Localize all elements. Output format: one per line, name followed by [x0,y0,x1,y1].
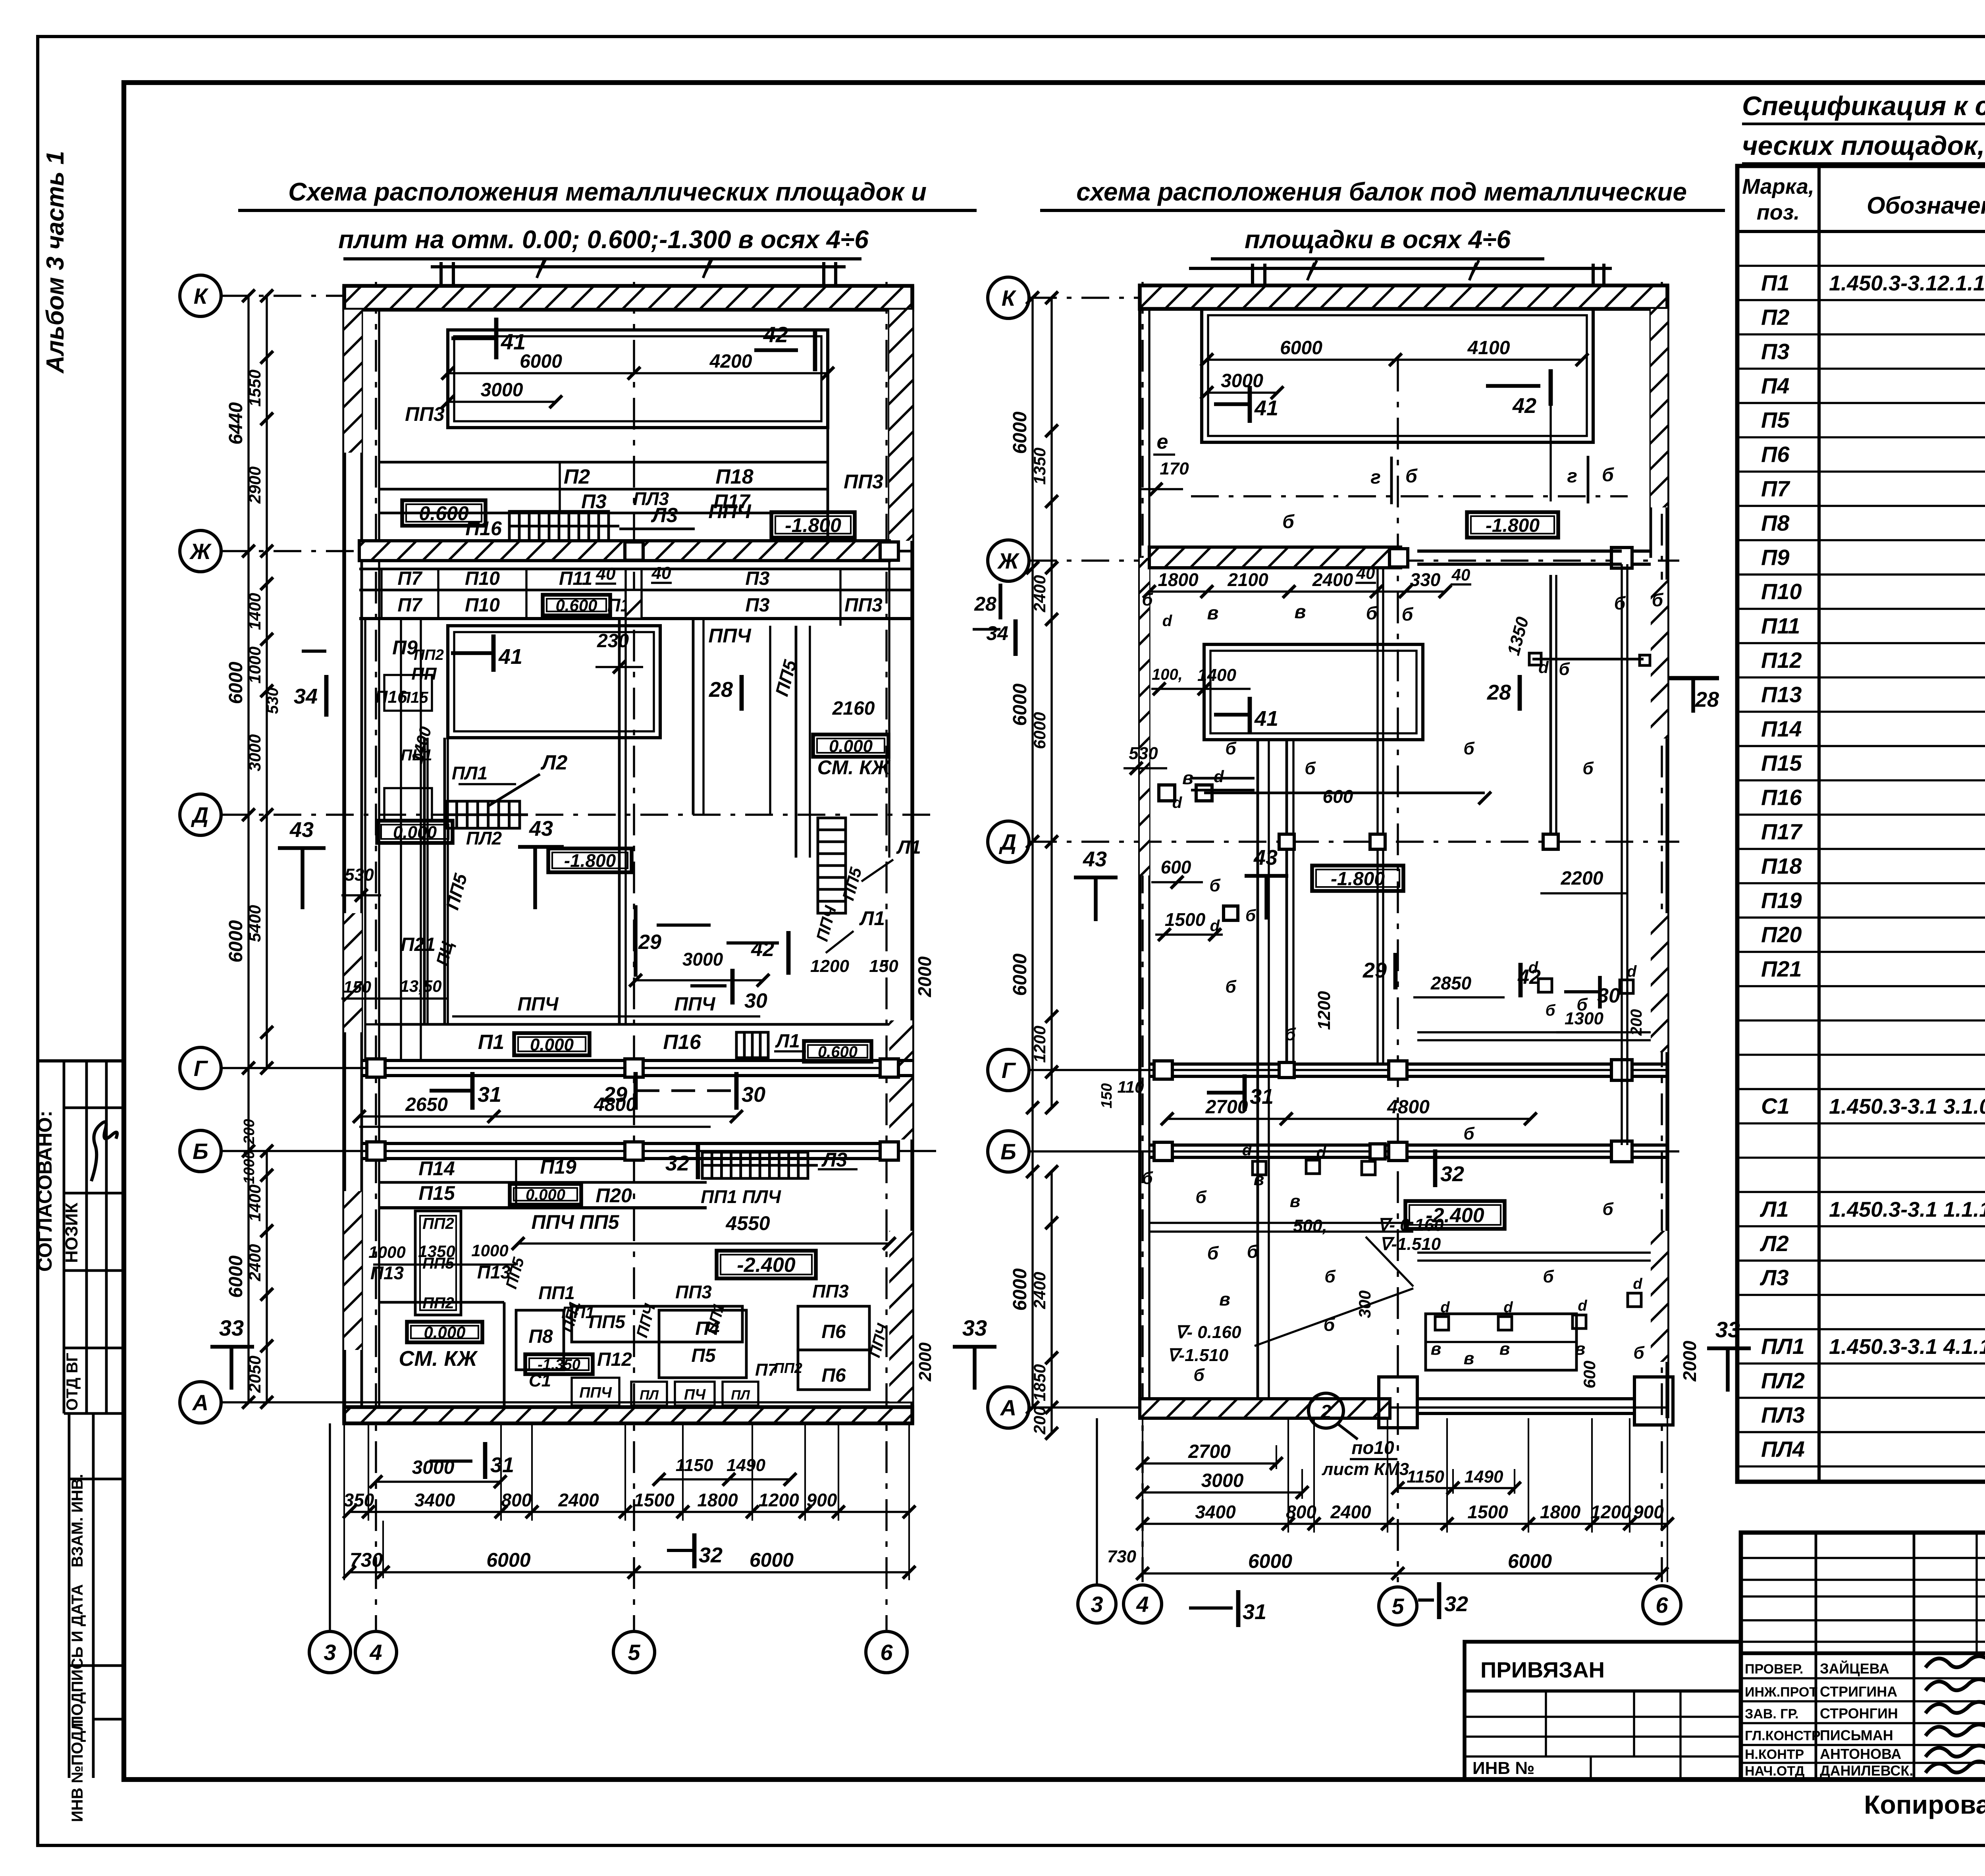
svg-text:3000: 3000 [1201,1470,1244,1491]
svg-text:2400: 2400 [1030,1272,1049,1309]
vertical stairs column right side [769,626,771,815]
svg-text:2000: 2000 [914,956,935,997]
svg-text:d: d [1578,1298,1587,1314]
small rects left plan mid-left column [384,675,432,711]
svg-text:П20: П20 [595,1184,632,1207]
axis Г line [221,1067,912,1069]
svg-text:б: б [1543,1267,1554,1286]
svg-text:П6: П6 [821,1321,846,1342]
svg-text:-2.400: -2.400 [1426,1204,1484,1227]
axis 3 line right [1096,1418,1098,1584]
svg-text:110: 110 [1118,1078,1144,1096]
inner verticals right plan [1285,740,1288,1064]
svg-text:42: 42 [763,322,788,347]
svg-text:б: б [1366,603,1378,623]
svg-text:СОГЛАСОВАНО:: СОГЛАСОВАНО: [34,1111,56,1272]
svg-text:б: б [1652,590,1664,610]
svg-text:40: 40 [651,563,671,583]
lower sidebar boxes [68,1413,71,1778]
svg-text:б: б [1225,977,1237,997]
svg-text:ППЧ: ППЧ [674,994,715,1015]
svg-text:1490: 1490 [727,1456,765,1475]
section flag 41 top [451,336,496,340]
svg-text:ПЛ2: ПЛ2 [1761,1368,1805,1393]
svg-text:б: б [1142,590,1153,609]
svg-text:П13: П13 [370,1263,404,1283]
svg-text:170: 170 [1160,459,1189,478]
svg-text:40: 40 [596,564,616,584]
svg-text:Л1: Л1 [1760,1196,1789,1221]
svg-text:300: 300 [1355,1290,1374,1318]
long horizontals left plan mid [452,1015,760,1017]
axis К line right [1029,297,1667,299]
axis К line [221,295,912,297]
svg-text:d: d [1316,1144,1327,1161]
svg-text:4100: 4100 [1467,337,1510,359]
svg-text:2100: 2100 [1227,569,1268,590]
svg-text:d: d [1214,767,1224,786]
svg-text:2: 2 [1320,1402,1332,1423]
svg-text:d: d [1210,917,1220,935]
svg-text:43: 43 [1083,847,1107,871]
axis circle Ж [180,530,221,572]
title block [1741,1533,1985,1780]
tall column room right [795,626,798,858]
svg-text:1000: 1000 [471,1241,508,1260]
svg-text:ПЛ3: ПЛ3 [1761,1402,1805,1427]
svg-text:1200: 1200 [1590,1502,1631,1522]
svg-text:1.450.3-3.1 1.1.1.0,0: 1.450.3-3.1 1.1.1.0,0 [1829,1197,1985,1221]
svg-text:П8: П8 [528,1326,553,1347]
svg-text:0.600: 0.600 [419,502,468,524]
rows П7 П10 П11 [359,568,912,571]
svg-text:32: 32 [699,1543,723,1567]
svg-text:ПЛ4: ПЛ4 [1761,1436,1805,1461]
svg-text:43: 43 [529,817,553,841]
svg-text:1490: 1490 [1465,1467,1503,1487]
41 flag right plan top [1214,402,1250,406]
svg-text:П5: П5 [691,1345,716,1366]
svg-text:в: в [1254,1170,1264,1189]
svg-text:2400: 2400 [1330,1502,1371,1522]
svg-text:d: d [1440,1299,1450,1316]
axis circle Г [180,1047,221,1089]
svg-text:б: б [1324,1267,1336,1286]
svg-text:ПЧ: ПЧ [684,1386,706,1403]
dim 6000/4200 top [448,372,828,374]
svg-text:∇- 0.160: ∇- 0.160 [1175,1323,1241,1342]
svg-text:150: 150 [869,956,898,976]
svg-text:2400: 2400 [245,1244,264,1281]
svg-text:К: К [1002,285,1017,310]
svg-text:1800: 1800 [1158,569,1199,590]
svg-text:230: 230 [597,630,629,652]
svg-text:30: 30 [742,1083,765,1107]
svg-text:Л3: Л3 [821,1149,847,1171]
svg-text:150: 150 [1098,1083,1115,1108]
svg-text:в: в [1464,1349,1474,1368]
svg-text:С1: С1 [529,1371,551,1390]
axis Г line right [1029,1069,1667,1071]
svg-text:1200: 1200 [1314,991,1334,1030]
svg-text:1850: 1850 [1030,1364,1049,1401]
axis circle 6 [866,1631,907,1673]
svg-text:800: 800 [501,1490,532,1510]
axis circle 3 [309,1631,351,1673]
svg-text:d: d [1633,1276,1642,1292]
svg-text:Копировал: Коршунова: Копировал: Коршунова [1864,1790,1985,1819]
svg-text:2400: 2400 [558,1490,599,1510]
dim 6000 4100 right top [1207,359,1582,361]
svg-text:6000: 6000 [1508,1550,1552,1572]
СМ.КЖ room [379,1301,504,1304]
axis 4 line right [1141,282,1143,1582]
svg-text:П18: П18 [1761,853,1802,878]
32 flag bottom right plan [1418,1598,1434,1602]
svg-text:Л1: Л1 [775,1031,800,1052]
29 flag [634,905,638,977]
svg-text:ПОДПИСЬ И ДАТА: ПОДПИСЬ И ДАТА [69,1584,86,1727]
svg-text:СТРОНГИН: СТРОНГИН [1820,1705,1898,1722]
svg-text:б: б [1463,739,1475,758]
Б beam right [1149,1143,1667,1147]
svg-text:900: 900 [807,1490,837,1510]
d square row below Б [1253,1161,1266,1175]
svg-text:ППЧ: ППЧ [708,625,752,647]
privyazan table [1465,1642,1741,1780]
svg-text:150: 150 [343,978,371,996]
bottom wall А (hatched) [344,1407,912,1423]
svg-text:СМ. КЖ: СМ. КЖ [399,1347,478,1371]
axis 5 line [633,282,635,1630]
svg-text:в: в [1575,1339,1586,1359]
svg-text:32: 32 [1444,1592,1468,1616]
svg-text:ческих площадок, балок, лестни: ческих площадок, балок, лестниц [1742,131,1985,161]
axis Д line right [1029,841,1679,843]
28 flag right plan [1518,675,1522,711]
section flag 42 top [754,348,798,352]
svg-text:б: б [1225,739,1237,758]
svg-text:2400: 2400 [1312,569,1353,590]
svg-text:d: d [1162,612,1173,630]
svg-text:ПП3: ПП3 [405,403,445,425]
extension lines below right plan [1287,1418,1289,1533]
svg-text:б: б [1195,1188,1207,1207]
svg-text:б: б [1245,906,1256,925]
svg-text:0.000: 0.000 [530,1035,574,1055]
А wall right plan (hatched) [1140,1399,1390,1418]
svg-text:П15: П15 [399,689,428,706]
axis А line [221,1401,912,1403]
svg-text:в: в [1207,603,1219,624]
svg-text:Л1: Л1 [859,907,885,929]
svg-text:4: 4 [1136,1592,1149,1617]
svg-text:40: 40 [1451,565,1470,584]
Б beam [362,1142,889,1145]
svg-text:П2: П2 [1761,305,1789,330]
svg-text:в: в [1290,1192,1301,1211]
42 flag right plan top [1486,384,1540,388]
svg-text:3400: 3400 [414,1490,455,1510]
svg-text:2900: 2900 [245,467,264,504]
section flags 31 29 30 below Г [430,1089,472,1093]
svg-text:НАЧ.ОТД: НАЧ.ОТД [1745,1764,1804,1779]
31 flag bottom right plan [1189,1606,1233,1610]
svg-text:900: 900 [1633,1502,1664,1522]
svg-text:5: 5 [628,1640,640,1665]
svg-text:41: 41 [1254,396,1278,420]
axis circle 5 right [1379,1587,1417,1625]
svg-text:6000: 6000 [520,351,562,372]
svg-text:б: б [1285,1025,1296,1044]
svg-text:28: 28 [1695,688,1719,711]
svg-text:П7: П7 [397,595,423,616]
axis Б line right [1029,1150,1679,1152]
svg-text:1000: 1000 [368,1243,405,1261]
svg-text:100,: 100, [1152,666,1183,683]
axis circle 5 [613,1631,655,1673]
svg-text:530: 530 [1129,744,1158,763]
svg-text:б: б [1193,1365,1205,1385]
svg-text:6000: 6000 [1010,1268,1031,1311]
svg-text:Обозначение: Обозначение [1867,192,1985,219]
-1.350 box [525,1354,593,1374]
svg-text:П10: П10 [465,595,500,616]
dim row 1800 2100 2400 330 [1149,590,1445,592]
28 section flag [740,675,744,711]
svg-text:1400: 1400 [245,593,264,630]
svg-text:1400: 1400 [245,1184,264,1221]
signature squiggle [91,1122,117,1181]
svg-text:3400: 3400 [1195,1502,1236,1522]
svg-text:40: 40 [1356,564,1375,582]
svg-text:ППЧ ПП5: ППЧ ПП5 [532,1211,620,1233]
svg-text:П19: П19 [1761,888,1802,913]
axis circle 6 right [1643,1586,1681,1624]
32 flag right [1433,1149,1438,1187]
svg-text:Альбом 3 часть 1: Альбом 3 часть 1 [42,151,69,374]
svg-text:6000: 6000 [225,1255,247,1298]
svg-text:П1: П1 [1761,270,1789,295]
svg-text:33: 33 [962,1315,987,1340]
svg-text:∇-1.510: ∇-1.510 [1380,1234,1441,1254]
svg-text:0.000: 0.000 [393,823,437,842]
svg-text:6000: 6000 [1280,337,1322,359]
svg-text:Л2: Л2 [540,751,568,774]
svg-text:1150: 1150 [1407,1467,1444,1487]
svg-text:Л1: Л1 [896,837,921,858]
axis circle К [180,275,221,316]
left wall right plan [1138,285,1141,1418]
axis circle 3 right [1078,1585,1116,1623]
svg-text:в: в [1499,1339,1510,1359]
axis 5 line right [1397,360,1399,1582]
svg-text:1200: 1200 [1030,1026,1049,1062]
svg-text:ЗАЙЦЕВА: ЗАЙЦЕВА [1820,1660,1889,1677]
svg-text:2000: 2000 [1679,1340,1700,1382]
svg-text:3: 3 [1091,1592,1103,1617]
svg-text:6000: 6000 [1010,953,1031,996]
left dim chains [247,296,249,1402]
svg-text:АНТОНОВА: АНТОНОВА [1820,1746,1901,1762]
svg-text:32: 32 [1440,1162,1464,1186]
svg-text:П8: П8 [1761,510,1790,535]
svg-text:330: 330 [1410,569,1441,590]
svg-text:П17: П17 [1761,819,1803,844]
svg-text:б: б [1582,759,1594,778]
svg-text:0.000: 0.000 [526,1186,565,1203]
svg-text:1400: 1400 [1197,665,1236,685]
svg-text:31: 31 [490,1453,514,1477]
Ж band right (hatch + beam) [1149,547,1401,568]
svg-text:б: б [1142,1168,1153,1188]
svg-text:Г: Г [1002,1058,1016,1083]
inner verticals left plan [423,738,426,1024]
svg-text:41: 41 [501,329,526,354]
axis А line right [1029,1406,1667,1408]
svg-text:1350: 1350 [418,1242,455,1261]
svg-text:730: 730 [1107,1547,1137,1566]
svg-text:6000: 6000 [1010,411,1031,454]
svg-text:в: в [1219,1289,1230,1309]
svg-text:б: б [1247,1241,1259,1262]
axis circle А right [988,1387,1029,1428]
upper platform opening [448,330,828,428]
svg-text:3000: 3000 [245,734,264,771]
svg-text:1350: 1350 [1030,447,1049,484]
svg-text:6000: 6000 [1248,1550,1292,1572]
svg-text:28: 28 [709,678,733,702]
svg-text:2650: 2650 [405,1094,448,1115]
svg-text:-2.400: -2.400 [737,1254,796,1277]
svg-text:2050: 2050 [245,1355,264,1393]
svg-text:2850: 2850 [1430,973,1472,993]
svg-text:530: 530 [345,865,374,885]
svg-text:Д: Д [999,829,1016,854]
41 flag rect2 [1214,713,1250,717]
svg-text:Схема расположения металлическ: Схема расположения металлических площадо… [288,177,927,206]
svg-text:4: 4 [369,1640,382,1665]
svg-text:ПЛ1: ПЛ1 [1761,1334,1805,1359]
svg-text:П21: П21 [1761,956,1802,981]
svg-text:П5: П5 [1761,407,1790,432]
svg-text:П4: П4 [1761,373,1789,398]
svg-text:33: 33 [1715,1317,1740,1342]
-1.800 box right [1467,512,1558,538]
svg-text:ПП2: ПП2 [414,647,444,663]
svg-text:1.450.3-3.1 4.1.1.0-07: 1.450.3-3.1 4.1.1.0-07 [1829,1335,1985,1359]
svg-text:П3: П3 [745,595,770,616]
svg-text:1000: 1000 [245,646,264,683]
svg-text:П3: П3 [581,490,607,513]
svg-text:ПП3: ПП3 [812,1281,849,1301]
T28 at right edge [1667,676,1719,681]
svg-text:ППЧ: ППЧ [708,500,752,523]
inner rect 2 right [1204,644,1423,740]
е beam dash line [1191,495,1628,497]
circled 2 detail [1309,1393,1343,1428]
axis circle Д [180,794,221,835]
svg-text:Г: Г [194,1056,208,1081]
svg-text:34: 34 [294,684,318,708]
svg-text:ПРОВЕР.: ПРОВЕР. [1745,1662,1803,1677]
svg-text:Спецификация к схеме расположе: Спецификация к схеме расположения металл… [1742,91,1985,121]
horizontal beams right plan mid [1191,777,1255,780]
dim 2650 4800 [359,1115,736,1117]
svg-text:ПП3: ПП3 [844,595,883,616]
svg-text:1150: 1150 [676,1456,713,1475]
svg-text:б: б [1209,876,1221,895]
-2.400 elevation [717,1251,816,1278]
svg-text:ПЛ: ПЛ [640,1388,659,1403]
К wall right plan (hatched) [1140,285,1667,309]
svg-text:К: К [194,283,209,308]
-1.800 elevation [771,512,855,538]
svg-text:6: 6 [1655,1593,1668,1618]
svg-text:П6: П6 [1761,442,1790,467]
svg-text:1800: 1800 [1540,1502,1581,1522]
svg-text:ИНВ №: ИНВ № [1472,1758,1534,1778]
svg-text:6000: 6000 [1010,683,1031,726]
svg-text:СТРИГИНА: СТРИГИНА [1820,1683,1897,1700]
svg-text:1200: 1200 [758,1490,799,1510]
axis circle К right [988,277,1029,318]
svg-text:31: 31 [1243,1600,1266,1624]
svg-text:ПЛ1: ПЛ1 [452,763,488,783]
svg-text:ИНЖ.ПРОТ: ИНЖ.ПРОТ [1745,1685,1817,1700]
axis 6 line right [1661,282,1663,1582]
34 flag [324,675,329,717]
svg-text:П10: П10 [465,568,500,589]
axis circle А [180,1382,221,1423]
svg-text:в: в [1431,1339,1442,1359]
svg-text:П1: П1 [478,1031,504,1054]
П1 row above Г [379,1023,889,1026]
svg-text:СМ. КЖ: СМ. КЖ [817,756,891,779]
svg-text:31: 31 [1250,1085,1274,1109]
svg-text:Ж: Ж [189,539,212,564]
svg-text:600: 600 [1161,857,1191,877]
svg-text:4550: 4550 [725,1212,770,1234]
svg-text:ПП3: ПП3 [844,470,883,493]
29 flag right [1393,953,1398,989]
svg-text:б: б [1614,593,1626,613]
svg-text:4200: 4200 [709,351,752,372]
svg-text:41: 41 [498,645,522,669]
svg-text:1.450.3-3.12.1.1.0.0-38: 1.450.3-3.12.1.1.0.0-38 [1829,272,1985,295]
svg-text:П15: П15 [1761,750,1802,775]
canopy edge lines above К [431,265,846,268]
svg-text:П20: П20 [1761,922,1802,947]
svg-text:П11: П11 [1761,613,1800,638]
right plan left dim chains [1031,298,1033,1407]
svg-text:ПП1: ПП1 [561,1303,595,1322]
svg-text:0.600: 0.600 [555,596,597,615]
svg-text:30: 30 [1597,984,1620,1007]
svg-text:ГЛ.КОНСТР: ГЛ.КОНСТР [1745,1728,1821,1743]
svg-text:-1.800: -1.800 [564,850,616,871]
svg-text:3: 3 [324,1640,336,1665]
stairs at Д (Л2) [446,801,520,828]
-1.800 elevation [548,848,632,872]
svg-text:поз.: поз. [1757,201,1800,224]
axis 6 line [885,282,887,1630]
right wall right plan [1665,285,1669,1418]
d squares extra right plan [1279,834,1294,849]
0.600 elevation [402,500,486,526]
svg-text:ОТД ВГ: ОТД ВГ [64,1353,81,1411]
svg-text:ППЧ: ППЧ [579,1384,612,1401]
